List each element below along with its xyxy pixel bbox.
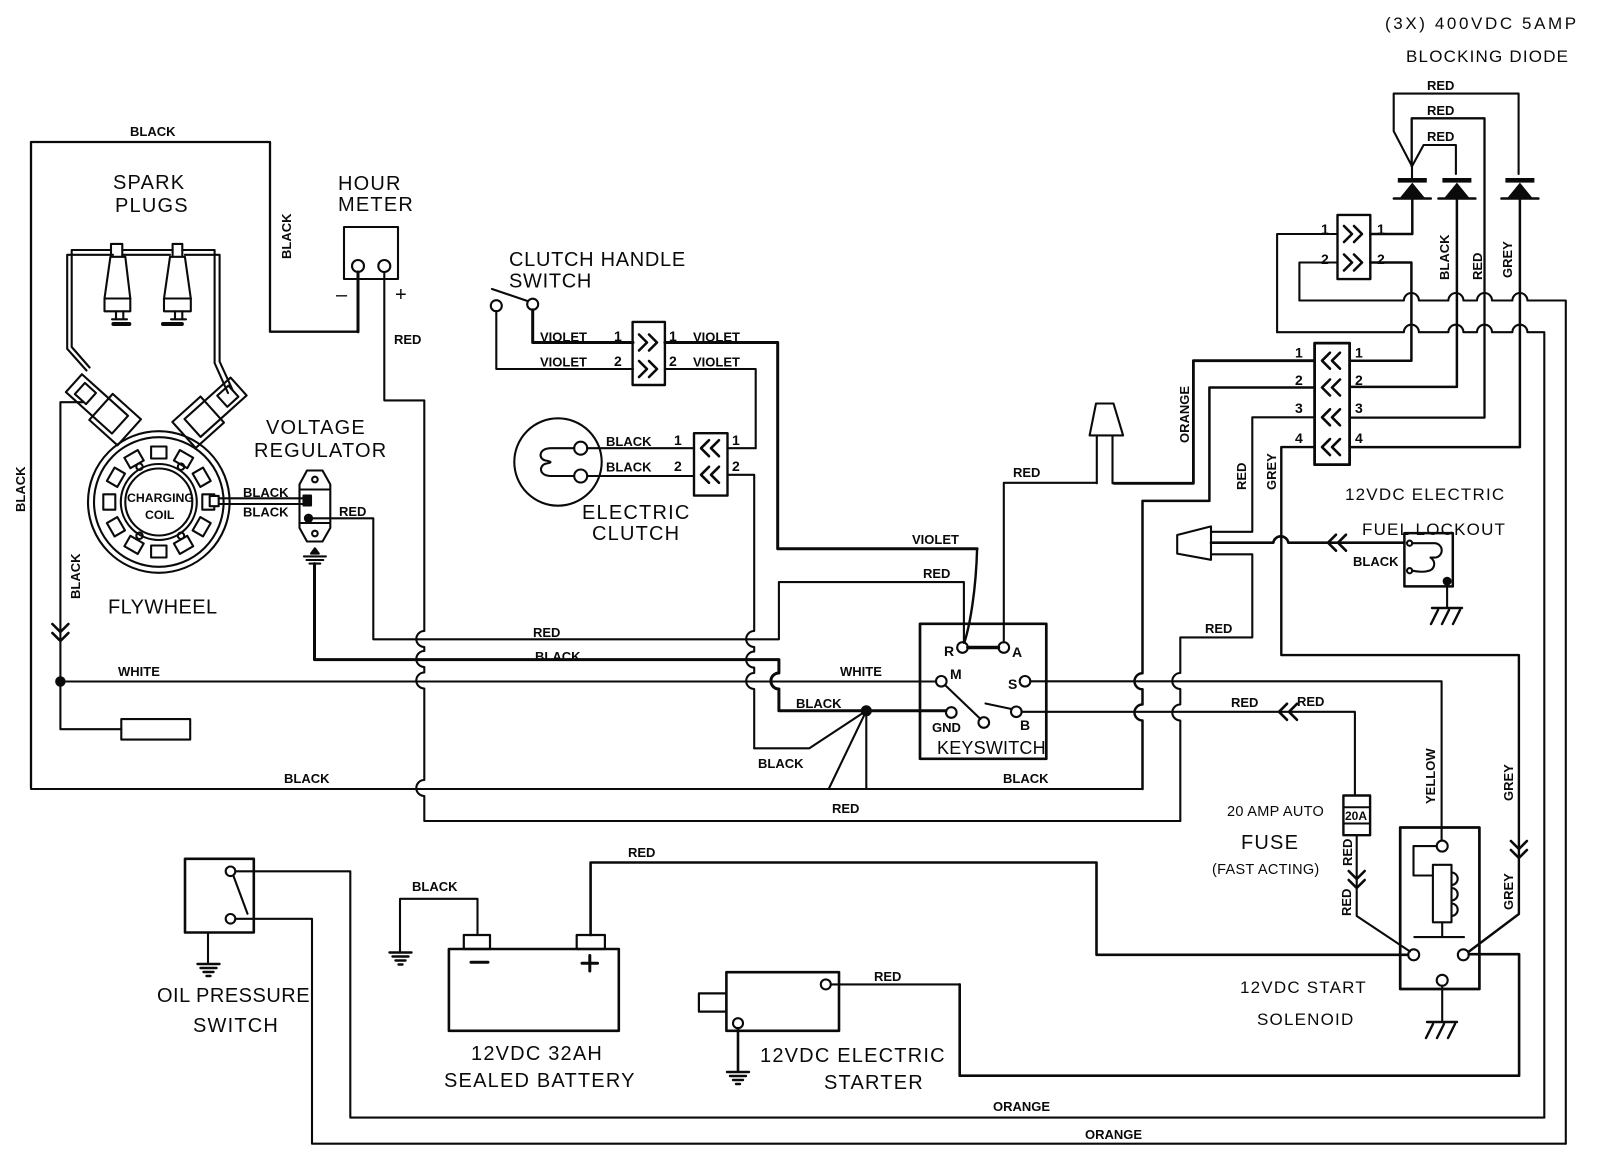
wire: spark plug double loop top middle and right side <box>122 250 228 393</box>
oil pressure switch S3 box <box>185 859 254 933</box>
spark plug P1 electrode <box>112 311 127 319</box>
clutch handle switch S1 terminals <box>491 300 502 311</box>
keyswitch wiper B-to-center <box>986 704 1012 710</box>
wire: junction dot leader to lower-left BLACK branch <box>754 711 866 749</box>
electric clutch L1 body circle <box>514 418 601 505</box>
spark plug P1 cone body <box>105 257 131 299</box>
spark plug P1 base bar <box>113 322 129 326</box>
keyswitch terminal R <box>957 642 968 653</box>
wire: J3 pin1 left U-turn to hop row2 <box>1277 234 1337 332</box>
spark plug P1 lower shell <box>105 299 131 312</box>
svg-text:FUEL LOCKOUT: FUEL LOCKOUT <box>1362 520 1506 539</box>
wire: riser x=1142.5 from y=789 up to 4-pin pin2 with hops over B and S <box>1135 388 1315 790</box>
wire: top-left BLACK border from spark plug loop to hour meter minus <box>31 142 358 787</box>
oil pressure switch lever <box>234 876 248 914</box>
ignition coil armature right (angled, mirrored) <box>172 373 250 448</box>
svg-text:4: 4 <box>1295 430 1303 446</box>
arrow marker on fuse output <box>1349 871 1365 888</box>
wire: J2 pin1 to violet drop <box>728 447 756 449</box>
wire: S1 right terminal to J1 pin1 (thick violet) <box>533 310 633 343</box>
wire: RED2 diode1 top to long red drop (4pin pin3 riser) <box>1350 118 1485 417</box>
svg-text:ELECTRIC: ELECTRIC <box>582 502 691 524</box>
keyswitch R-A bar <box>968 646 999 649</box>
wire: clutch terminal 1 to J2 <box>587 447 694 449</box>
wire: solenoid right contact to starter red run <box>960 954 1519 1075</box>
regulator mounting holes <box>312 477 318 483</box>
hour meter M1 box <box>344 227 398 279</box>
svg-text:BLACK: BLACK <box>606 460 652 475</box>
wire: keyswitch A up and right to bullet connector <box>1004 483 1097 642</box>
electric clutch coil (paperclip) <box>541 448 575 476</box>
starter nose tab <box>699 993 727 1011</box>
svg-text:WHITE: WHITE <box>840 664 882 679</box>
svg-text:RED: RED <box>1205 621 1232 636</box>
diode D3 <box>1502 178 1539 199</box>
svg-text:SWITCH: SWITCH <box>193 1015 279 1037</box>
svg-text:CLUTCH HANDLE: CLUTCH HANDLE <box>509 249 686 271</box>
svg-text:1: 1 <box>614 328 622 344</box>
svg-text:VOLTAGE: VOLTAGE <box>266 417 366 439</box>
keyswitch S2 box <box>920 624 1046 759</box>
wire: oil switch case to ground <box>207 933 209 964</box>
svg-text:M: M <box>950 666 962 682</box>
wire: diode1 top stub <box>1411 164 1413 178</box>
svg-text:RED: RED <box>1231 695 1258 710</box>
wire: fuse output down to solenoid left contact <box>1357 835 1410 951</box>
fuel lockout coil (3-shape) <box>1412 543 1442 572</box>
svg-text:PLUGS: PLUGS <box>115 195 189 217</box>
svg-text:2: 2 <box>1321 251 1329 267</box>
svg-text:RED: RED <box>874 969 901 984</box>
keyswitch terminal GND <box>946 707 957 718</box>
wire: J1 pin1 thick violet to keyswitch R (with curve) <box>665 343 977 549</box>
svg-text:YELLOW: YELLOW <box>1423 748 1438 804</box>
svg-text:1: 1 <box>1355 345 1363 361</box>
spark plug P2 lower shell <box>164 299 191 312</box>
svg-text:S: S <box>1008 676 1017 692</box>
flywheel outer rings <box>88 431 230 573</box>
wire: J4 pin1 left to orange riser down to bullet connector <box>1114 361 1315 484</box>
connector J1 (clutch handle) body <box>633 322 665 385</box>
svg-text:ORANGE: ORANGE <box>1177 386 1192 443</box>
svg-text:R: R <box>944 643 954 659</box>
spark plug P2 cap <box>173 244 183 257</box>
fuse F1 body <box>1343 796 1370 836</box>
svg-text:–: – <box>336 284 348 306</box>
solenoid contact right <box>1458 949 1469 960</box>
svg-text:12VDC 32AH: 12VDC 32AH <box>471 1043 603 1065</box>
svg-text:RED: RED <box>1339 889 1354 916</box>
solenoid coil bottom lead and bar <box>1414 922 1464 937</box>
wire: J3 pin2 left U-turn to hop row1 <box>1299 263 1337 301</box>
connector J3 pin2 chevrons <box>1344 255 1362 271</box>
svg-text:BLACK: BLACK <box>68 553 83 599</box>
flywheel screw dots <box>136 464 142 470</box>
wire: regulator RED output to keyswitch R <box>312 518 964 643</box>
connector J4 pin2 chevrons <box>1322 380 1340 396</box>
svg-text:20A: 20A <box>1345 809 1367 823</box>
svg-text:RED: RED <box>1470 253 1485 280</box>
connector J4 pin4 chevrons <box>1322 439 1340 455</box>
connector J1 pin1 chevrons <box>639 335 657 351</box>
wire: starter red to riser <box>831 983 960 985</box>
svg-text:1: 1 <box>1295 345 1303 361</box>
svg-text:12VDC ELECTRIC: 12VDC ELECTRIC <box>1345 485 1505 504</box>
battery BT1 case <box>449 949 619 1031</box>
wire: y=821 riser up at x=1180.3 with hops over S and B lines, to red connector cone <box>1172 554 1252 821</box>
wire: battery plus RED to solenoid left contact <box>591 863 1408 955</box>
svg-text:RED: RED <box>628 845 655 860</box>
spark plug P2 cone body <box>164 257 191 299</box>
svg-text:1: 1 <box>674 432 682 448</box>
svg-text:2: 2 <box>614 353 622 369</box>
svg-text:COIL: COIL <box>145 508 175 522</box>
svg-text:RED: RED <box>1427 129 1454 144</box>
wire: J4 pin3 left down to red cone top <box>1211 417 1315 532</box>
label minus (battery) <box>471 961 488 964</box>
spark plug P2 electrode <box>171 311 186 319</box>
svg-text:BLACK: BLACK <box>130 124 176 139</box>
svg-text:4: 4 <box>1355 430 1363 446</box>
svg-text:3: 3 <box>1295 400 1303 416</box>
svg-text:BLACK: BLACK <box>796 696 842 711</box>
svg-text:+: + <box>395 284 408 306</box>
svg-text:KEYSWITCH: KEYSWITCH <box>937 738 1046 758</box>
wire: double BLACK from charging coil to regulator <box>219 498 305 504</box>
svg-text:2: 2 <box>1355 372 1363 388</box>
svg-text:VIOLET: VIOLET <box>912 532 959 547</box>
diode D1 <box>1394 178 1431 199</box>
svg-text:3: 3 <box>1355 400 1363 416</box>
svg-text:ORANGE: ORANGE <box>1085 1127 1142 1142</box>
keyswitch terminal B <box>1011 707 1022 718</box>
svg-text:SPARK: SPARK <box>113 172 185 194</box>
junction dot white wire <box>56 677 64 685</box>
svg-text:FUSE: FUSE <box>1241 832 1299 854</box>
svg-text:RED: RED <box>832 801 859 816</box>
arrow marker on fuel lockout wire <box>1328 535 1346 551</box>
voltage regulator VR1 body <box>300 471 331 542</box>
svg-text:RED: RED <box>1013 465 1040 480</box>
wire: fuel lockout ground drop <box>1446 584 1448 608</box>
starter earth ground <box>727 1072 749 1084</box>
keyswitch terminal A <box>999 642 1010 653</box>
diode D2 <box>1439 178 1476 199</box>
svg-text:RED: RED <box>923 566 950 581</box>
wire: diode D3 anode down to 4pin pin4 right <box>1350 199 1520 448</box>
wire: J1 pin2 violet down to electric clutch connector row1 <box>665 369 756 448</box>
connector J2 (electric clutch) body <box>694 433 728 495</box>
svg-text:SWITCH: SWITCH <box>509 271 592 293</box>
svg-text:2: 2 <box>674 458 682 474</box>
wire: bottom BLACK run from left border to keyswitch area riser (y=789) with hop of hourmeter-red drawn on vertical <box>31 787 1143 789</box>
wire: hop row2 across diode drops to right border (down to orange1) <box>1277 325 1544 1118</box>
connector J4 (4-pin) body <box>1315 343 1350 465</box>
svg-text:BLACK: BLACK <box>284 771 330 786</box>
svg-text:2: 2 <box>732 458 740 474</box>
svg-text:B: B <box>1020 717 1030 733</box>
arrow marker down on x=60.4 wire <box>52 624 68 641</box>
svg-text:OIL PRESSURE: OIL PRESSURE <box>157 985 310 1007</box>
wire: S1 left terminal to J1 pin2 <box>496 311 633 369</box>
wire: junction dot diagonal to RED at y=789 <box>829 711 867 789</box>
svg-text:BLACK: BLACK <box>1353 554 1399 569</box>
wire: starter ground <box>737 1028 740 1071</box>
svg-text:12VDC START: 12VDC START <box>1240 978 1367 997</box>
svg-text:ORANGE: ORANGE <box>993 1099 1050 1114</box>
label plus (battery) <box>582 956 598 972</box>
solenoid coil bracket <box>1414 846 1437 875</box>
svg-text:GREY: GREY <box>1500 241 1515 278</box>
flywheel inner hub rings <box>121 464 197 540</box>
fuel lockout terminals <box>1407 541 1412 546</box>
wire: diode D1 anode to J3 pin1 right <box>1370 199 1412 235</box>
red bullet connector cone (fuel lockout line, pointing left) <box>1177 526 1211 559</box>
wire: regulator ground to keyswitch GND (thick black) <box>315 564 947 711</box>
oil pressure switch terminals <box>226 867 236 877</box>
connector J3 pin1 chevrons <box>1344 226 1362 242</box>
svg-text:2: 2 <box>1377 251 1385 267</box>
spark module rectangle (dead-end box) <box>121 719 190 740</box>
regulator terminal dot (red wire) <box>305 515 312 522</box>
junction dot on GND wire <box>862 706 871 715</box>
wire: RED1 loop diode1 to diode3 top <box>1394 94 1519 174</box>
svg-text:GREY: GREY <box>1501 764 1516 801</box>
svg-text:SOLENOID: SOLENOID <box>1257 1010 1354 1029</box>
keyswitch wiper M-to-center <box>945 685 981 719</box>
wire: cone shaft to fuel lockout with hop over grey riser <box>1211 536 1404 542</box>
svg-text:RED: RED <box>1297 694 1324 709</box>
wire: hop row1 across diode drops to right border (down to orange2) <box>1299 293 1565 1144</box>
svg-text:BLOCKING DIODE: BLOCKING DIODE <box>1406 47 1569 66</box>
svg-text:FLYWHEEL: FLYWHEEL <box>108 597 218 619</box>
svg-text:SEALED BATTERY: SEALED BATTERY <box>444 1070 636 1092</box>
svg-text:(FAST ACTING): (FAST ACTING) <box>1212 862 1320 878</box>
svg-text:BLACK: BLACK <box>279 213 294 259</box>
solenoid contact left <box>1408 949 1419 960</box>
svg-text:BLACK: BLACK <box>243 505 289 520</box>
svg-text:BLACK: BLACK <box>758 756 804 771</box>
svg-text:WHITE: WHITE <box>118 664 160 679</box>
connector J2 pin1 chevrons <box>701 440 719 456</box>
svg-text:RED: RED <box>1427 78 1454 93</box>
svg-text:VIOLET: VIOLET <box>693 355 740 370</box>
connector J4 pin1 chevrons <box>1322 353 1340 369</box>
wire: battery minus to earth ground <box>400 899 478 952</box>
keyswitch terminal S <box>1020 676 1031 687</box>
spark plug P2 base bar <box>163 322 182 326</box>
wire: spark plug double loop left side <box>72 250 111 368</box>
wire: violet curve into keyswitch R <box>965 549 978 642</box>
electric clutch terminals <box>574 442 587 455</box>
starter M2 body <box>726 972 839 1031</box>
svg-text:1: 1 <box>732 432 740 448</box>
svg-text:BLACK: BLACK <box>13 466 28 512</box>
connector J3 (2-pin) body <box>1338 215 1371 279</box>
solenoid coil loops <box>1452 873 1458 916</box>
oil pressure switch earth ground <box>198 964 220 976</box>
svg-text:RED: RED <box>1340 839 1355 866</box>
svg-text:GREY: GREY <box>1501 873 1516 910</box>
starter terminal top right <box>821 979 831 989</box>
keyswitch terminal M <box>936 676 947 687</box>
flywheel stator segment ring <box>103 447 214 558</box>
wire: J3 pin2 right down to 4pin pin1 right <box>1350 263 1412 361</box>
svg-text:RED: RED <box>1427 103 1454 118</box>
svg-text:RED: RED <box>1234 463 1249 490</box>
hour meter terminal - <box>352 260 364 272</box>
svg-text:GREY: GREY <box>1264 453 1279 490</box>
wire: J4 pin4 left grey drop to solenoid right contact <box>1281 447 1519 951</box>
fuel lockout ground dot <box>1444 578 1451 585</box>
wire: diode D2 anode down to 4pin pin2 right <box>1350 199 1457 387</box>
svg-text:2: 2 <box>669 353 677 369</box>
arrow marker on B red wire <box>1279 704 1297 720</box>
wire: junction dot vertical drop to y=789 line <box>865 711 867 789</box>
svg-text:BLACK: BLACK <box>606 434 652 449</box>
svg-text:1: 1 <box>1377 221 1385 237</box>
solenoid bottom terminal <box>1437 975 1448 986</box>
svg-text:A: A <box>1012 644 1022 660</box>
svg-text:GND: GND <box>932 720 961 735</box>
svg-text:BLACK: BLACK <box>1003 771 1049 786</box>
wire: oil switch bottom terminal to orange line 2 <box>235 919 1566 1144</box>
wire: keyswitch S to solenoid yellow drop <box>1030 681 1441 840</box>
regulator terminal blob (black wires) <box>304 496 312 506</box>
svg-text:BLACK: BLACK <box>535 649 581 664</box>
svg-text:REGULATOR: REGULATOR <box>254 440 387 462</box>
svg-text:2: 2 <box>1295 372 1303 388</box>
connector J2 pin2 chevrons <box>701 467 719 483</box>
battery post left <box>464 935 490 949</box>
svg-text:12VDC ELECTRIC: 12VDC ELECTRIC <box>760 1045 946 1067</box>
bullet connector cone (keyswitch A line) <box>1090 404 1124 484</box>
svg-text:(3X) 400VDC 5AMP: (3X) 400VDC 5AMP <box>1385 14 1579 33</box>
solenoid coil terminal (top) <box>1437 841 1448 852</box>
wire: oil switch top terminal to orange line 1 <box>235 871 1544 1117</box>
battery negative earth ground <box>390 953 412 965</box>
charging coil output notch <box>210 496 219 506</box>
wire: RED3 diode1 top to diode2 top <box>1412 145 1456 174</box>
svg-text:HOUR: HOUR <box>338 173 402 195</box>
svg-text:METER: METER <box>338 194 414 216</box>
battery post right <box>577 935 605 949</box>
svg-text:RED: RED <box>339 504 366 519</box>
fuel lockout chassis ground <box>1431 608 1462 624</box>
svg-text:RED: RED <box>394 332 421 347</box>
svg-text:CLUTCH: CLUTCH <box>592 523 680 545</box>
hour meter terminal + <box>378 260 390 272</box>
solenoid chassis ground <box>1426 1022 1457 1038</box>
connector J4 pin3 chevrons <box>1322 409 1340 425</box>
svg-text:VIOLET: VIOLET <box>540 330 587 345</box>
svg-text:BLACK: BLACK <box>412 879 458 894</box>
wire: hour meter + RED down long run to x=424 riser <box>384 272 1180 821</box>
start solenoid K2 box <box>1400 828 1479 990</box>
solenoid coil core <box>1433 865 1452 923</box>
regulator case ground symbol <box>311 548 319 553</box>
spark plug P1 cap <box>111 244 122 257</box>
clutch handle switch lever <box>492 289 528 301</box>
svg-text:BLACK: BLACK <box>1437 234 1452 280</box>
arrow marker on grey wire <box>1511 841 1527 858</box>
svg-text:20 AMP AUTO: 20 AMP AUTO <box>1227 804 1324 820</box>
wire: WHITE from charging tap to keyswitch M <box>60 680 936 682</box>
svg-text:CHARGING: CHARGING <box>127 491 194 505</box>
starter terminal bottom left <box>733 1018 743 1028</box>
svg-text:BLACK: BLACK <box>243 485 289 500</box>
keyswitch wiper terminal <box>979 717 990 728</box>
svg-text:VIOLET: VIOLET <box>540 355 587 370</box>
svg-text:STARTER: STARTER <box>824 1072 924 1094</box>
svg-text:RED: RED <box>533 625 560 640</box>
fuel lockout K1 body <box>1404 533 1452 586</box>
connector J1 pin2 chevrons <box>639 361 657 377</box>
wire: stub from left coil to white-wire drop at x=60.4 <box>60 402 121 729</box>
wire: J2 pin2 down long drop with 3 hops to black junction branch <box>728 475 755 749</box>
ignition coil armature left (angled) <box>63 370 141 446</box>
wire: solenoid bottom terminal to chassis ground <box>1441 986 1443 1022</box>
wire: clutch terminal 2 to J2 <box>587 475 694 477</box>
wire: keyswitch B to fuse (red) <box>1022 712 1355 796</box>
